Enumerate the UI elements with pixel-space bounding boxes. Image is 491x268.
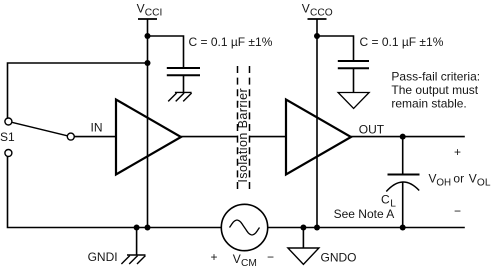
wire top-left rail (8, 63, 148, 118)
wire cap to ground (input) (183, 75, 185, 92)
wire GNDI stub (136, 228, 138, 256)
note pass-fail criteria (391, 70, 480, 111)
node OUT wire (351, 123, 465, 137)
junction GNDI (134, 225, 140, 231)
signal ground symbol GNDI (hatched) (121, 255, 145, 264)
wire VCCI vertical rail (147, 19, 149, 228)
bottom rail right segment (268, 227, 465, 229)
svg-text:CCI: CCI (145, 8, 163, 19)
svg-text:or: or (453, 172, 464, 186)
junction CL-bottom (400, 225, 406, 231)
signal ground symbol (input side, hatched) (168, 92, 191, 101)
wire left rail lower (8, 157, 222, 228)
chassis ground symbol (output cap, open triangle) (338, 93, 369, 109)
junction VCCI-input rail (145, 60, 151, 66)
isolation barrier (236, 66, 250, 190)
svg-text:OUT: OUT (359, 123, 385, 137)
svg-text:GNDI: GNDI (88, 250, 118, 264)
svg-text:V: V (233, 252, 241, 266)
svg-text:+: + (454, 145, 461, 159)
junction VCCI-cap (145, 33, 151, 39)
source VCM (sine source) (211, 204, 275, 268)
wire cap to ground (output) (353, 68, 355, 92)
wire VCCO vertical rail (316, 19, 318, 228)
svg-text:V: V (429, 172, 437, 186)
op-amp input-side buffer (116, 100, 181, 175)
svg-text:remain stable.: remain stable. (391, 97, 466, 111)
svg-text:S1: S1 (0, 130, 15, 144)
svg-text:C = 0.1 µF ±1%: C = 0.1 µF ±1% (360, 35, 444, 49)
svg-text:CM: CM (241, 258, 257, 268)
supply VCCO (302, 2, 333, 19)
capacitor C (input) value C = 0.1 uF +/-1% (167, 35, 273, 76)
wire cap C input feed (148, 36, 184, 68)
svg-text:−: − (454, 204, 461, 218)
switch S1 (0, 118, 74, 157)
svg-text:Pass-fail criteria:: Pass-fail criteria: (391, 70, 480, 84)
label VOH or VOL (429, 172, 491, 189)
svg-text:OH: OH (436, 178, 451, 189)
svg-text:−: − (267, 250, 274, 264)
wire barrier to amp2 input (249, 136, 286, 138)
junction OUT-CL (400, 134, 406, 140)
svg-text:V: V (469, 172, 477, 186)
wire GNDO stub (302, 228, 304, 248)
svg-text:+: + (211, 250, 218, 264)
svg-text:OL: OL (477, 178, 491, 189)
wire cap C output feed (317, 36, 354, 61)
junction VCCI rail-bottom (145, 225, 151, 231)
svg-text:CCO: CCO (310, 8, 333, 19)
chassis ground symbol GNDO (open triangle) (288, 248, 319, 264)
capacitor CL (381, 175, 420, 210)
wire CL to bottom rail (402, 182, 404, 228)
wire amp1 output to barrier (181, 136, 238, 138)
junction VCCO rail-bottom (314, 225, 320, 231)
capacitor C (output) value C = 0.1 uF +/-1% (338, 35, 444, 69)
svg-text:See Note A: See Note A (334, 207, 395, 221)
supply VCCI (137, 2, 163, 19)
wire OUT down to CL (402, 137, 404, 174)
junction GNDO (300, 225, 306, 231)
svg-text:The output must: The output must (391, 83, 478, 97)
svg-text:Isolation Barrier: Isolation Barrier (236, 88, 250, 183)
svg-text:C = 0.1 µF ±1%: C = 0.1 µF ±1% (189, 35, 273, 49)
node IN wire switch to amp (74, 120, 116, 136)
op-amp output-side buffer (286, 100, 351, 175)
svg-text:GNDO: GNDO (321, 250, 357, 264)
svg-text:V: V (302, 2, 310, 16)
svg-text:C: C (381, 192, 390, 206)
svg-text:IN: IN (91, 120, 103, 134)
junction VCCO-cap (314, 33, 320, 39)
svg-text:V: V (137, 2, 145, 16)
